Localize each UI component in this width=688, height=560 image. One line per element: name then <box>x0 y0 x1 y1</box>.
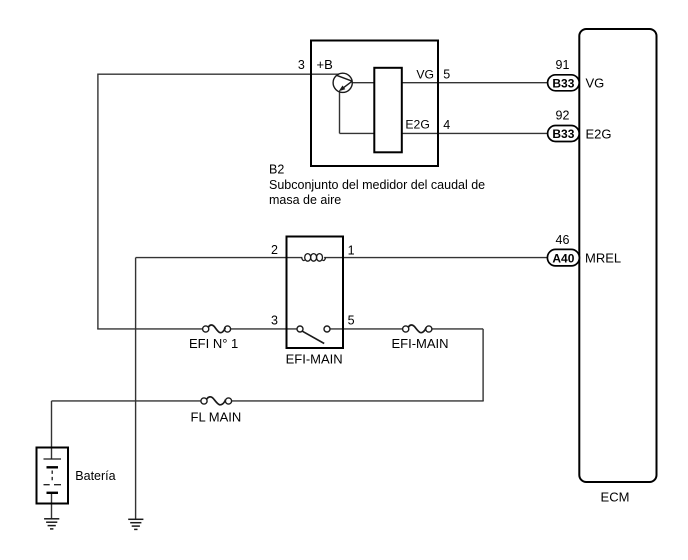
wire E2G from MAF internals to ECM B33 <box>340 132 549 134</box>
svg-text:VG: VG <box>416 67 434 81</box>
svg-text:Batería: Batería <box>75 469 115 483</box>
wire +B horizontal from node corner to MAF sensor <box>98 73 339 75</box>
relay box EFI-MAIN <box>287 237 344 349</box>
relay switch contact left <box>297 326 303 332</box>
svg-text:EFI-MAIN: EFI-MAIN <box>286 351 343 366</box>
wire fuse EFI N°1 line to relay pin 3 <box>97 328 202 330</box>
svg-text:A40: A40 <box>552 251 574 265</box>
connector B33 pin 91 VG <box>548 75 580 91</box>
wire relay pin 1 to ECM A40 <box>324 257 548 259</box>
svg-text:3: 3 <box>298 58 305 72</box>
connector B33 pin 92 E2G <box>548 126 580 142</box>
svg-text:+B: +B <box>317 57 333 72</box>
fuse EFI N°1 <box>203 325 231 333</box>
wire vertical right corner down to FL MAIN line <box>482 329 484 401</box>
svg-text:E2G: E2G <box>405 118 429 132</box>
svg-text:5: 5 <box>348 314 355 328</box>
wire FL MAIN horizontal line <box>52 400 201 402</box>
fuse EFI-MAIN <box>403 325 432 333</box>
svg-text:B33: B33 <box>552 77 574 91</box>
MAF sensor box B2 <box>311 41 438 167</box>
svg-text:2: 2 <box>271 243 278 257</box>
svg-text:B2: B2 <box>269 162 284 176</box>
relay switch contact right <box>324 326 330 332</box>
connector A40 pin 46 MREL <box>547 249 579 266</box>
svg-text:EFI N° 1: EFI N° 1 <box>189 336 238 351</box>
ground symbol under battery <box>44 519 59 529</box>
svg-text:VG: VG <box>586 76 605 91</box>
svg-text:91: 91 <box>556 58 570 72</box>
svg-text:B33: B33 <box>552 127 574 141</box>
svg-text:46: 46 <box>556 233 570 247</box>
svg-text:EFI-MAIN: EFI-MAIN <box>392 336 449 351</box>
svg-text:E2G: E2G <box>586 127 612 142</box>
sensing element resistor inside MAF <box>374 68 402 153</box>
svg-text:ECM: ECM <box>601 490 630 505</box>
svg-text:Subconjunto del medidor del ca: Subconjunto del medidor del caudal de <box>269 178 485 192</box>
svg-text:4: 4 <box>443 118 450 132</box>
fusible link FL MAIN <box>201 397 232 405</box>
relay coil <box>302 254 326 262</box>
wire VG from MAF internals to ECM B33 <box>352 82 548 84</box>
wire relay pin 5 to corner via fuse EFI-MAIN <box>330 328 403 330</box>
battery box <box>37 448 69 504</box>
svg-text:92: 92 <box>556 109 570 123</box>
svg-text:MREL: MREL <box>585 250 621 265</box>
wire battery positive terminal vertical <box>51 401 53 459</box>
transistor symbol in MAF sensor <box>333 73 352 92</box>
svg-text:3: 3 <box>271 314 278 328</box>
wire ground branch vertical at x135 <box>135 258 137 519</box>
svg-text:masa de aire: masa de aire <box>269 193 341 207</box>
wire vertical left branch from +B down to fuse line <box>97 74 99 329</box>
battery plates <box>44 459 62 493</box>
svg-text:FL MAIN: FL MAIN <box>191 409 242 424</box>
wire transistor emitter vertical inside MAF <box>339 91 341 133</box>
svg-text:1: 1 <box>348 243 355 257</box>
ECM box <box>579 29 656 482</box>
wire battery negative to ground <box>51 493 53 519</box>
ground symbol MREL branch <box>128 519 143 529</box>
wire MREL coil line from ground branch to relay pin 2 <box>136 257 303 259</box>
svg-text:5: 5 <box>443 68 450 82</box>
relay switch blade <box>302 331 324 343</box>
